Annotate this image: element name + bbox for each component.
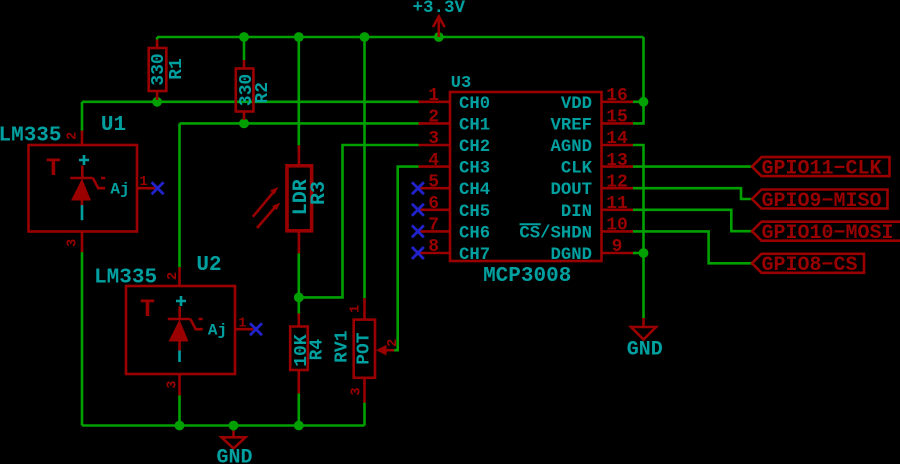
svg-text:T: T [46,154,61,183]
svg-text:1: 1 [348,305,363,313]
svg-text:CH0: CH0 [459,95,490,114]
svg-text:CH5: CH5 [459,203,490,222]
svg-text:16: 16 [606,86,628,106]
svg-text:15: 15 [606,108,628,128]
svg-text:R3: R3 [308,181,331,205]
svg-text:3: 3 [428,129,439,149]
svg-text:CH3: CH3 [459,160,490,179]
svg-text:8: 8 [428,237,439,257]
svg-text:6: 6 [428,194,439,214]
svg-text:DGND: DGND [551,246,592,265]
svg-text:GPIO11−CLK: GPIO11−CLK [762,158,882,181]
svg-text:LM335: LM335 [94,266,157,289]
svg-text:MCP3008: MCP3008 [483,265,571,288]
svg-text:GND: GND [216,447,252,464]
svg-text:CLK: CLK [561,160,593,179]
svg-text:1: 1 [238,316,246,331]
svg-text:4: 4 [428,151,439,171]
svg-text:2: 2 [166,272,181,280]
svg-text:LM335: LM335 [0,125,62,148]
svg-text:2: 2 [386,339,401,347]
svg-text:U2: U2 [196,254,221,277]
svg-text:CH1: CH1 [459,116,490,135]
svg-text:9: 9 [612,237,623,257]
svg-text:3: 3 [165,381,180,389]
svg-text:DIN: DIN [561,203,592,222]
svg-text:11: 11 [606,194,628,214]
svg-text:2: 2 [428,108,439,128]
svg-text:2: 2 [66,132,81,140]
svg-text:U3: U3 [451,74,471,93]
svg-text:DOUT: DOUT [551,181,592,200]
svg-text:13: 13 [606,151,628,171]
svg-text:CH4: CH4 [459,181,490,200]
svg-text:R2: R2 [253,82,273,104]
svg-text:GPIO8−CS: GPIO8−CS [762,254,858,277]
svg-text:T: T [140,295,155,324]
svg-text:3: 3 [349,387,364,395]
svg-text:Aj: Aj [110,181,129,199]
svg-text:+3.3V: +3.3V [413,0,466,18]
svg-text:CH7: CH7 [459,246,490,265]
svg-text:CH2: CH2 [459,138,490,157]
svg-text:5: 5 [428,172,439,192]
svg-text:U1: U1 [101,114,126,137]
svg-text:1: 1 [140,175,148,190]
svg-text:1: 1 [428,86,439,106]
svg-text:VREF: VREF [551,116,592,135]
svg-text:POT: POT [355,332,375,365]
svg-text:VDD: VDD [561,95,592,114]
svg-text:R1: R1 [167,58,187,80]
svg-text:GND: GND [627,339,663,362]
svg-text:14: 14 [606,129,628,149]
svg-text:7: 7 [428,216,439,236]
svg-text:GPIO10−MOSI: GPIO10−MOSI [762,222,894,245]
svg-text:3: 3 [66,239,81,247]
svg-text:AGND: AGND [551,138,592,157]
svg-text:CH6: CH6 [459,224,490,243]
svg-text:R4: R4 [307,339,327,361]
svg-text:12: 12 [606,172,628,192]
svg-text:CS/SHDN: CS/SHDN [519,224,592,243]
svg-text:GPIO9−MISO: GPIO9−MISO [762,190,882,213]
svg-text:10: 10 [606,216,628,236]
svg-text:Aj: Aj [208,322,227,340]
svg-text:RV1: RV1 [332,330,352,363]
